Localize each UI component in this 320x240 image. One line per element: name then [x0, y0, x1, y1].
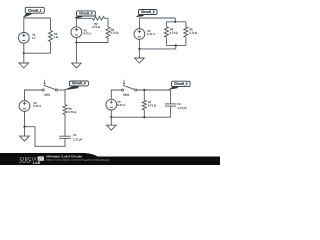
capacitor C2 — [165, 104, 176, 106]
wire circuit2 top left lead — [76, 17, 92, 19]
resistor R5 — [184, 27, 188, 38]
namebox Circuit_1 — [23, 7, 45, 17]
node circuit3 bottom rail junction — [175, 44, 177, 46]
svg-text:5.71 V: 5.71 V — [33, 104, 41, 108]
wire circuit4 source to switch — [25, 90, 43, 101]
svg-text:5.71 Ω: 5.71 Ω — [111, 31, 119, 35]
node circuit5 R7 top junction — [143, 89, 145, 91]
wire circuit2 top right lead — [105, 17, 109, 19]
svg-text:C1: C1 — [73, 133, 77, 137]
node circuit3 ground junction — [138, 48, 140, 50]
svg-text:V5: V5 — [117, 100, 121, 104]
node circuit5 R7 bottom junction — [143, 116, 145, 118]
footer logo mark box — [38, 156, 44, 160]
wire R4 bottom lead — [165, 37, 167, 45]
wire circuit4 right top lead — [64, 90, 66, 105]
wire C2 bottom lead — [170, 106, 172, 117]
label R7 value — [148, 100, 156, 107]
svg-text:R1: R1 — [54, 32, 58, 36]
node circuit2 ground junction — [75, 41, 77, 43]
svg-text:6.71 Ω: 6.71 Ω — [148, 103, 156, 107]
svg-text:6.71 Ω: 6.71 Ω — [68, 110, 76, 114]
svg-text:2.71 Ω: 2.71 Ω — [189, 31, 197, 35]
wire circuit3 left top lead — [138, 18, 140, 29]
resistor R1 — [48, 31, 52, 42]
svg-text:V4: V4 — [33, 101, 37, 105]
resistor R2 — [93, 16, 105, 20]
resistor R3 — [106, 27, 110, 38]
wire R7 bottom lead — [143, 110, 145, 117]
svg-text:2.71 Ω: 2.71 Ω — [170, 31, 178, 35]
svg-text:1.71 µF: 1.71 µF — [177, 106, 187, 110]
label C1 value — [73, 133, 82, 142]
wire switch to corner — [57, 89, 65, 91]
wire switch to C2 corner — [137, 89, 171, 91]
svg-text:5.71 V: 5.71 V — [147, 32, 155, 36]
node circuit5 ground junction — [110, 116, 112, 118]
svg-text:R2: R2 — [94, 22, 98, 26]
wire circuit1 left bottom lead — [23, 43, 25, 53]
svg-text:R3: R3 — [111, 28, 115, 32]
wire circuit1 top — [24, 17, 51, 19]
wire circuit2 bottom — [76, 42, 108, 44]
label V3 value — [147, 29, 155, 36]
wire circuit4 return — [25, 127, 66, 147]
label R1 value — [54, 32, 58, 39]
node circuit1 ground junction — [23, 52, 25, 54]
resistor R6 — [63, 105, 67, 115]
namebox Circuit_4 — [63, 81, 88, 90]
wire circuit3 top — [139, 17, 175, 19]
label V1 value — [32, 33, 36, 40]
ground circuit1 — [19, 53, 29, 68]
svg-text:R4: R4 — [170, 27, 174, 31]
wire circuit1 left top lead — [23, 18, 25, 33]
wire R5 top lead — [185, 22, 187, 27]
svg-text:5.71 V: 5.71 V — [117, 103, 125, 107]
label R4 value — [170, 27, 178, 34]
wire circuit2 left top lead — [75, 18, 77, 27]
label R5 value — [189, 27, 197, 34]
namebox Circuit_5 — [169, 81, 191, 89]
svg-text:V2: V2 — [83, 28, 87, 32]
label C2 value — [177, 102, 187, 110]
svg-text:5 V: 5 V — [32, 36, 35, 40]
wire R3 top lead — [107, 18, 109, 27]
svg-text:R6: R6 — [68, 107, 72, 111]
wire R7 top lead — [143, 90, 145, 100]
wire R6 to C1 — [64, 115, 66, 137]
footer logo waveform — [19, 161, 31, 163]
wire circuit3 feed drop — [174, 18, 176, 22]
wire circuit5 source to switch — [111, 90, 122, 99]
voltage source V1 — [18, 32, 29, 43]
ground circuit3 — [135, 49, 145, 63]
wire circuit3 return drop — [175, 45, 177, 49]
svg-text:Circuit_2: Circuit_2 — [79, 11, 93, 15]
label R2 value — [92, 22, 100, 29]
svg-text:C2: C2 — [177, 102, 181, 106]
voltage source V3 — [134, 29, 145, 40]
svg-text:1 Ω: 1 Ω — [54, 35, 58, 39]
wire circuit3 inner bottom rail — [166, 44, 186, 46]
svg-text:V3: V3 — [147, 29, 151, 33]
voltage source V4 — [19, 101, 30, 112]
svg-text:Circuit_4: Circuit_4 — [72, 81, 86, 85]
node circuit3 top rail junction — [174, 21, 176, 23]
ground circuit2 — [72, 43, 82, 69]
capacitor C1 — [59, 136, 70, 138]
wire R3 bottom lead — [107, 38, 109, 43]
resistor R4 — [164, 27, 168, 38]
node circuit4 ground junction — [23, 126, 25, 128]
wire R4 top lead — [165, 22, 167, 27]
wire circuit4 source bottom lead — [24, 111, 26, 127]
svg-text:SW1: SW1 — [44, 93, 50, 97]
svg-text:Circuit_3: Circuit_3 — [141, 10, 155, 14]
svg-text:Circuit_1: Circuit_1 — [28, 9, 42, 13]
namebox Circuit_3 — [136, 10, 157, 18]
svg-text:1.71 µF: 1.71 µF — [73, 137, 82, 141]
wire circuit3 left bottom lead — [138, 39, 140, 49]
resistor R7 — [142, 100, 146, 110]
wire R5 bottom lead — [185, 37, 187, 45]
label V5 value — [117, 100, 125, 107]
footer bar — [0, 153, 220, 165]
label R6 value — [68, 107, 76, 114]
voltage source V2 — [71, 27, 82, 38]
wire circuit5 source bottom lead — [110, 110, 112, 117]
wire circuit3 return — [139, 48, 175, 50]
svg-text:Circuit_5: Circuit_5 — [174, 82, 188, 86]
wire circuit1 bottom — [24, 52, 51, 54]
ground circuit5 — [107, 117, 117, 130]
switch SW2 — [122, 80, 137, 91]
svg-text:R7: R7 — [148, 100, 152, 104]
svg-text:LAB: LAB — [33, 161, 41, 165]
wire R1 top lead — [50, 18, 52, 31]
wire circuit2 left bottom lead — [75, 37, 77, 42]
svg-text:R5: R5 — [189, 27, 193, 31]
ground circuit4 — [20, 127, 30, 141]
label V2 value — [83, 28, 91, 35]
wire C2 top lead — [170, 90, 172, 104]
label V4 value — [33, 101, 41, 108]
voltage source V5 — [106, 99, 117, 110]
wire circuit5 bottom rail — [111, 116, 170, 118]
label R3 value — [111, 28, 119, 35]
svg-text:2.71 Ω: 2.71 Ω — [92, 25, 100, 29]
svg-text:5.71 V: 5.71 V — [83, 31, 91, 35]
namebox Circuit_2 — [74, 11, 95, 18]
wire circuit3 inner top rail — [166, 21, 186, 23]
switch SW1 — [42, 80, 57, 91]
svg-text:http://circuitlab.com/c/nsa6z7: http://circuitlab.com/c/nsa6z749b1bkqd — [46, 158, 110, 162]
svg-text:SW2: SW2 — [123, 93, 129, 97]
svg-text:V1: V1 — [32, 33, 36, 37]
wire R1 bottom lead — [50, 42, 52, 54]
